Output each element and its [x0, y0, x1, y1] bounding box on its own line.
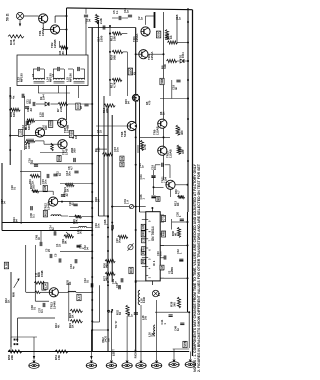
wire ladder v	[109, 26, 111, 96]
boxed pin label R20L	[141, 231, 145, 237]
wire down px125	[126, 316, 128, 360]
electrolytic C31	[77, 244, 86, 249]
wire TR11 down	[170, 189, 172, 197]
IC U1 SN76014 body	[146, 212, 160, 281]
svg-text:2.2K: 2.2K	[99, 18, 103, 24]
wire h py93	[38, 92, 70, 94]
capacitor C4 in T3	[78, 67, 79, 71]
diode D2 detector	[45, 102, 49, 106]
boxed label R33	[42, 284, 46, 290]
coil L16	[138, 290, 140, 304]
terminal T2	[86, 361, 96, 369]
svg-text:R25: R25	[43, 211, 47, 216]
svg-text:1n: 1n	[130, 314, 134, 317]
wire h py337 corner	[11, 336, 37, 338]
connector blocks	[14, 339, 19, 346]
svg-text:115AB: 115AB	[155, 126, 159, 135]
svg-text:04: 04	[88, 18, 92, 22]
label R51	[54, 354, 61, 360]
svg-text:1n: 1n	[126, 9, 130, 13]
capacitor C12b	[83, 278, 93, 288]
label C38	[30, 305, 37, 310]
wire IC top left	[140, 211, 146, 213]
resistor R17A	[176, 125, 179, 136]
wire spk route	[92, 285, 99, 322]
wire h py222.5 long	[2, 222, 92, 224]
wire px68 down	[68, 283, 70, 321]
transistor TR9 115AB	[158, 119, 167, 128]
resistor R10	[104, 104, 116, 107]
wire bus H px139	[139, 96, 141, 212]
wire thick stub	[154, 12, 156, 28]
wire tr12 c	[39, 191, 53, 195]
svg-text:[5K]: [5K]	[105, 276, 109, 281]
svg-text:C5: C5	[54, 253, 58, 257]
wire jog C-D	[98, 215, 108, 217]
wire corner	[137, 145, 139, 153]
boxed label C17b	[76, 103, 83, 110]
dots bus px92 lower	[91, 284, 93, 322]
svg-text:10n: 10n	[153, 165, 157, 170]
capacitor C19	[151, 163, 164, 170]
wire det stub	[0, 0, 1, 1]
wire left bus px10	[9, 87, 11, 165]
svg-text:R15: R15	[129, 267, 133, 272]
svg-text:1154B: 1154B	[53, 40, 57, 49]
wire tr12 e row	[58, 201, 93, 203]
svg-text:C20: C20	[142, 224, 145, 229]
label L16	[140, 296, 147, 303]
wire jack to base	[24, 15, 39, 17]
IC pin numbers	[149, 220, 152, 278]
capacitor C6	[33, 102, 35, 106]
svg-text:R1B: R1B	[57, 155, 61, 160]
svg-text:640: 640	[12, 112, 16, 117]
junction	[135, 97, 137, 99]
label R11	[166, 34, 173, 39]
coil L14b	[76, 227, 87, 234]
label R5	[145, 100, 152, 105]
resistor R11	[165, 30, 168, 40]
boxed pin label R8B	[162, 231, 166, 237]
label T2	[46, 73, 53, 82]
terminal T7	[169, 360, 179, 368]
tuning coil L14	[54, 78, 65, 83]
wire h py163.8	[30, 163, 92, 165]
IC top pin	[151, 207, 153, 212]
junction	[91, 103, 93, 105]
wire stub c14t	[41, 231, 55, 243]
resistor R32	[126, 305, 129, 316]
border top rail	[67, 8, 193, 10]
wire bus I2 px163	[163, 128, 165, 146]
label TR3	[147, 51, 154, 60]
boxed pin label R39L	[142, 247, 146, 252]
wire v px47	[0, 0, 1, 1]
label R16	[24, 124, 31, 130]
label R27c	[103, 276, 110, 281]
label L18	[141, 315, 148, 320]
boxed label C28	[43, 185, 47, 191]
svg-text:.02: .02	[65, 193, 69, 197]
resistor R19b	[28, 174, 40, 184]
label TR8	[120, 130, 127, 137]
svg-text:50 Ω: 50 Ω	[6, 13, 10, 21]
label R36	[171, 231, 178, 236]
label R10	[102, 107, 109, 113]
transistor TR13 15448	[49, 288, 58, 297]
coil L5	[51, 215, 61, 216]
resistor R20	[112, 50, 123, 53]
junction	[109, 33, 111, 35]
resistor R21	[63, 183, 74, 192]
svg-text:50n: 50n	[118, 238, 122, 243]
svg-text:640: 640	[27, 125, 31, 130]
svg-text:1K: 1K	[71, 324, 75, 328]
svg-text:4K: 4K	[57, 325, 61, 328]
wire l14b	[70, 227, 92, 229]
label R17A	[178, 128, 185, 135]
svg-text:LM09: LM09	[170, 267, 174, 274]
resistor R29	[72, 215, 82, 224]
wire c24	[153, 170, 164, 195]
svg-text:1544: 1544	[42, 94, 46, 100]
capacitor C36b	[127, 312, 138, 317]
transistor TR5 1548B	[58, 118, 67, 127]
svg-text:1154A: 1154A	[41, 27, 45, 36]
label R42	[4, 298, 11, 303]
capacitor C2 in T1	[38, 67, 39, 71]
svg-text:24K: 24K	[75, 219, 79, 224]
svg-text:1K: 1K	[74, 135, 78, 139]
label MW	[12, 292, 16, 297]
capacitor C2B	[111, 279, 120, 290]
label L13 T1	[17, 73, 24, 82]
label 50 ohm	[6, 13, 10, 21]
resistor R51	[55, 350, 68, 353]
svg-text:MF185: MF185	[19, 73, 23, 82]
wire h py230.5 long	[2, 230, 92, 232]
label LEFT	[112, 349, 116, 356]
wire TR13 base	[26, 291, 49, 293]
svg-text:10n: 10n	[116, 147, 120, 152]
wire bus I px163	[163, 12, 165, 119]
wire h py98.5	[160, 98, 189, 100]
capacitor C17	[103, 25, 105, 29]
svg-text:150: 150	[97, 147, 101, 152]
boxed label L1B	[4, 262, 8, 269]
capacitor C22m	[53, 171, 62, 176]
svg-text:1n: 1n	[115, 10, 119, 14]
junction	[107, 250, 109, 252]
svg-text:84: 84	[118, 311, 122, 315]
capacitor C15b	[41, 174, 49, 184]
wire h py135.5 long	[10, 135, 108, 137]
svg-text:1K: 1K	[167, 36, 171, 40]
capacitor C33	[69, 259, 77, 269]
wire r29	[69, 216, 93, 218]
label C22	[177, 147, 184, 152]
resistor R22	[32, 190, 39, 193]
svg-text:X2: X2	[120, 156, 124, 160]
label R44b	[54, 323, 61, 328]
boxed pin label B2L	[141, 259, 145, 264]
resistor R38	[177, 297, 180, 308]
svg-text:1548: 1548	[65, 148, 69, 155]
junction	[91, 329, 93, 331]
svg-text:L17: L17	[77, 295, 81, 300]
label R7	[56, 106, 63, 112]
lamp P1	[152, 290, 159, 297]
wire bus E px108	[107, 106, 109, 353]
svg-text:L10: L10	[19, 130, 23, 135]
junction TO X	[108, 310, 119, 328]
labels near TRosc	[124, 99, 131, 104]
wire c30	[0, 0, 1, 1]
svg-text:100: 100	[41, 112, 45, 117]
boxed label X2	[120, 156, 124, 161]
capacitor C4B	[35, 235, 42, 246]
junction	[187, 79, 189, 81]
wire down px175	[173, 349, 175, 359]
wire bus G px136 long	[135, 28, 137, 353]
svg-text:OSC: OSC	[157, 30, 161, 37]
svg-text:B8: B8	[156, 197, 160, 201]
boxed label R19	[69, 131, 73, 138]
label R38	[170, 301, 177, 306]
label PH2	[101, 336, 110, 343]
label R20	[110, 54, 117, 60]
svg-text:4.7: 4.7	[70, 166, 74, 170]
boxed label R1B	[57, 155, 61, 161]
wire h py312	[155, 311, 190, 313]
label R3 mid	[94, 147, 101, 152]
volume pot VR1	[64, 232, 74, 238]
capacitor C37	[38, 303, 45, 313]
tuning coil L13	[34, 78, 45, 83]
boxed label 5M8	[48, 120, 52, 127]
label R32	[116, 310, 123, 315]
svg-text:1154A: 1154A	[135, 33, 139, 42]
svg-text:4.7K: 4.7K	[12, 39, 16, 45]
svg-text:10n: 10n	[97, 223, 101, 228]
resistor R16	[27, 119, 35, 122]
wire TR3 b	[136, 53, 139, 55]
wire l5	[61, 215, 68, 217]
small zigzag R41	[25, 142, 30, 144]
wire box stub 3	[78, 86, 80, 99]
wire c1t down to box	[85, 18, 87, 55]
junction	[91, 276, 93, 278]
wire h py183.5	[60, 183, 93, 185]
wire down px159	[156, 300, 158, 360]
coil LS	[148, 325, 155, 337]
svg-text:L14: L14	[44, 283, 48, 288]
wire T2 cap	[53, 68, 64, 70]
svg-text:C28: C28	[43, 185, 47, 190]
label C2 in box	[32, 73, 35, 77]
wire h py245.4	[160, 244, 188, 246]
label C26b	[10, 185, 17, 190]
transistor TR4 1154A	[141, 27, 150, 36]
junction	[135, 125, 137, 127]
wire v px112	[0, 0, 1, 1]
transistor TR7 1548	[58, 140, 67, 149]
dots bus px108 lower	[107, 284, 109, 331]
terminal T4	[122, 361, 132, 369]
terminal T1 chassis	[29, 361, 39, 369]
label R14	[164, 35, 171, 40]
wire TR1 top	[0, 0, 1, 1]
resistor R46	[8, 35, 24, 38]
label AR7	[71, 133, 78, 139]
svg-text:1000: 1000	[99, 35, 103, 42]
wire h py137.4	[140, 136, 170, 138]
wire r14	[178, 42, 190, 44]
resistor R18	[26, 139, 35, 142]
svg-text:L1B: L1B	[5, 263, 9, 268]
svg-text:4n: 4n	[11, 95, 15, 99]
IC label IC1	[152, 260, 156, 266]
wire px24 v	[24, 96, 26, 150]
aerial arrow	[19, 20, 21, 27]
wire h py206.6	[111, 206, 146, 208]
transistor TR10 115AB	[158, 146, 167, 155]
border right (sheet edge)	[192, 10, 194, 356]
label C12	[21, 125, 28, 130]
svg-text:4.7K: 4.7K	[143, 144, 147, 150]
wire TR4 c	[146, 16, 155, 25]
wire d1	[177, 60, 189, 62]
jack SK2	[129, 205, 133, 209]
label C19b	[94, 223, 101, 228]
svg-text:15448: 15448	[46, 202, 50, 210]
capacitor C30	[29, 206, 36, 218]
svg-text:1K: 1K	[66, 188, 70, 192]
junction	[107, 215, 109, 217]
svg-text:470: 470	[148, 100, 152, 105]
wire c19 h	[155, 165, 170, 178]
label TR7	[62, 148, 69, 155]
wire py152.5	[40, 152, 66, 154]
label R27A	[141, 144, 148, 150]
resistor R30r	[174, 189, 185, 199]
wire down px193	[189, 352, 191, 360]
boxed label 5D8	[160, 78, 164, 84]
capacitor C14m	[84, 104, 88, 106]
resistor R27A	[140, 140, 143, 151]
junction	[111, 309, 113, 311]
svg-text:P1: P1	[157, 292, 161, 296]
svg-text:1n: 1n	[118, 285, 122, 288]
transistor TR3 1154A	[139, 50, 148, 59]
junction bus	[109, 33, 111, 35]
svg-text:50K: 50K	[112, 55, 116, 60]
svg-text:STB: STB	[183, 341, 187, 346]
label C6	[26, 108, 33, 112]
label TR9	[153, 126, 160, 135]
IF transformer box	[17, 55, 88, 86]
svg-text:2W: 2W	[144, 316, 148, 320]
junction	[187, 21, 189, 23]
junction	[91, 207, 93, 209]
junction	[135, 229, 137, 231]
svg-text:20n: 20n	[44, 179, 48, 184]
svg-text:440: 440	[27, 144, 31, 149]
resistor R23b	[68, 309, 83, 318]
capacitor C9	[22, 94, 24, 98]
svg-text:300: 300	[73, 148, 77, 153]
junction	[66, 29, 68, 31]
boxed label R15	[129, 267, 133, 273]
wire c5	[112, 17, 128, 19]
wire bus C px98	[97, 20, 99, 216]
resistor R14 top right	[168, 41, 178, 44]
label near d row	[39, 94, 46, 100]
svg-text:30n: 30n	[68, 171, 72, 176]
wire T3 internal	[68, 69, 85, 80]
wire left px21	[20, 150, 22, 224]
svg-text:1n: 1n	[51, 227, 55, 230]
wire bus A px67	[66, 8, 68, 55]
resistor R50	[8, 350, 22, 353]
wire det row	[36, 103, 58, 105]
boxed pin label R27L	[141, 249, 145, 255]
capacitor C14t	[49, 225, 56, 236]
svg-text:154B: 154B	[40, 270, 44, 277]
junction	[107, 281, 109, 283]
svg-text:115AB: 115AB	[168, 149, 172, 158]
svg-text:.02: .02	[29, 108, 33, 112]
wire TR11 to bus	[175, 184, 188, 186]
junction	[109, 79, 111, 81]
svg-text:1B: 1B	[161, 266, 164, 269]
transistor TR1 1154A	[39, 14, 48, 23]
label R35	[66, 280, 73, 285]
notes line 2	[197, 163, 201, 372]
wire bottom rail py351.5	[8, 351, 189, 353]
svg-text:MF186: MF186	[68, 73, 72, 82]
capacitor C48	[174, 323, 185, 331]
tuning coil L15	[74, 78, 85, 83]
label R18	[24, 143, 31, 149]
capacitor C3 in T2	[58, 67, 59, 71]
svg-text:4.7: 4.7	[177, 190, 181, 194]
boxed label 1B2	[160, 265, 164, 270]
junction	[91, 257, 93, 259]
junction	[66, 47, 68, 49]
capacitor C21b	[152, 196, 154, 198]
label R45	[58, 50, 65, 56]
resistor R41b	[35, 291, 41, 293]
IC pin stubs right	[160, 215, 164, 278]
junction extra dots	[91, 25, 189, 275]
capacitor C19r	[172, 80, 181, 90]
wire h py27.5	[88, 27, 136, 29]
boxed pin label C32L	[142, 238, 146, 243]
wire R45 up	[59, 41, 62, 48]
svg-text:46: 46	[174, 232, 178, 236]
wire c1t	[85, 8, 87, 24]
wire box stub 1	[38, 86, 40, 94]
wire T1 cap	[33, 68, 44, 70]
label C27	[0, 199, 7, 204]
wire v c3t	[0, 0, 1, 1]
resistor R13	[112, 78, 122, 81]
label TR12	[44, 202, 51, 210]
wire bus J px177	[176, 17, 178, 43]
transistor TR8 1548	[127, 121, 136, 130]
